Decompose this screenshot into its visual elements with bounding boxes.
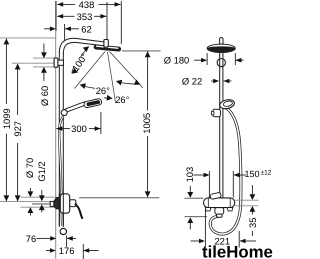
holder right figure <box>213 109 221 116</box>
svg-text:Ø 70: Ø 70 <box>24 158 35 178</box>
extension 176 right <box>82 244 84 259</box>
svg-text:100°: 100° <box>69 51 89 73</box>
svg-text:300: 300 <box>71 123 87 134</box>
union nuts <box>205 208 211 211</box>
hose left figure <box>59 116 63 226</box>
mixer body end lines <box>207 198 209 207</box>
spray line right <box>110 52 144 89</box>
datum line 1005 bottom <box>79 197 159 199</box>
26 deg second arc arrows <box>118 82 139 84</box>
svg-text:353: 353 <box>77 11 93 22</box>
svg-text:62: 62 <box>81 23 91 34</box>
dimension 300 <box>56 128 100 130</box>
top datum line 1099 <box>0 37 56 39</box>
dimension 76 <box>37 237 77 239</box>
pipe right figure <box>220 45 223 199</box>
dia60 extension bottom <box>33 66 54 68</box>
datum line 1005 top <box>122 50 161 52</box>
mixer body side view <box>60 194 69 213</box>
hand shower right figure <box>219 98 235 109</box>
dimension dia22 <box>211 80 232 82</box>
extension right 438 <box>120 1 122 44</box>
dimension G12 <box>41 190 43 213</box>
dimension 927 vertical <box>17 64 19 201</box>
extension 221 left <box>204 209 206 248</box>
dimension dia70 <box>29 188 31 216</box>
spray line center <box>108 52 116 103</box>
head side view black bar <box>93 44 121 51</box>
svg-text:103: 103 <box>184 167 195 183</box>
hand shower left figure handle <box>65 102 86 113</box>
svg-text:150: 150 <box>245 169 260 179</box>
head pivot block <box>104 40 108 48</box>
shower arm bend inner <box>63 42 104 54</box>
extension 300 right <box>100 112 102 134</box>
mixer center datum left <box>0 201 54 203</box>
dimension 1099 vertical <box>5 39 7 201</box>
knob above head <box>220 38 223 45</box>
extension union right <box>232 171 234 198</box>
dimension dia180 <box>194 59 244 61</box>
dimension 1005 <box>147 51 149 197</box>
dia60 extension top <box>33 57 54 59</box>
bracket datum line 927 <box>12 62 54 64</box>
dimension 176 <box>46 250 99 252</box>
top extension left dark (shared 438/353/62) <box>55 1 57 31</box>
wall line left figure <box>55 1 57 259</box>
dimension dia60 <box>43 44 45 82</box>
ball joint ring <box>217 59 225 67</box>
mixer nipple square <box>50 201 54 206</box>
dimension 150 <box>194 174 247 176</box>
svg-text:±12: ±12 <box>261 169 272 176</box>
hose right figure <box>210 108 241 235</box>
head disc front view <box>207 44 235 52</box>
100 deg arc and arrows <box>81 49 88 58</box>
extension pipe axis 62 <box>64 24 66 41</box>
extension disc left <box>206 53 208 65</box>
extension 221 right <box>238 231 240 248</box>
svg-text:927: 927 <box>12 121 23 137</box>
hand shower left figure head <box>84 98 103 108</box>
riser pipe left figure <box>59 52 63 227</box>
svg-text:Ø 180: Ø 180 <box>164 55 190 66</box>
svg-text:26°: 26° <box>115 94 129 105</box>
svg-text:Ø 22: Ø 22 <box>182 76 202 87</box>
hand shower holder circle <box>61 110 67 116</box>
G12 extension bottom dark <box>32 203 51 205</box>
svg-text:438: 438 <box>79 0 95 10</box>
svg-text:G1/2: G1/2 <box>36 161 47 181</box>
dimension 103 <box>189 186 191 230</box>
dia70 extension top <box>21 196 57 198</box>
spray line left <box>75 52 106 89</box>
dimension 62 <box>44 28 79 30</box>
mixer handle stub <box>70 200 76 207</box>
mixer front body <box>204 198 235 208</box>
35 extension lines <box>235 199 259 201</box>
dimension 353 <box>57 15 106 17</box>
svg-text:76: 76 <box>26 233 36 244</box>
dimension 438 <box>57 3 120 5</box>
hose end tip left figure <box>60 228 66 234</box>
mixer side view escutcheon cone <box>54 197 61 209</box>
103 extension top <box>185 197 204 199</box>
wall bracket flange <box>54 58 58 67</box>
pipe through mixer body <box>59 193 63 225</box>
mixer handle front <box>210 192 222 199</box>
26 deg first arc arrows <box>81 85 96 88</box>
dimension 35 <box>251 185 253 236</box>
103 extension bottom <box>185 216 208 218</box>
svg-text:176: 176 <box>59 245 75 256</box>
svg-text:1005: 1005 <box>141 113 152 134</box>
shower arm bend outer <box>59 38 104 53</box>
svg-text:tileHome: tileHome <box>202 243 273 259</box>
svg-text:35: 35 <box>247 218 258 228</box>
hose nut <box>217 214 222 217</box>
svg-text:221: 221 <box>214 235 230 246</box>
svg-text:Ø 60: Ø 60 <box>39 86 50 106</box>
mixer lever black <box>75 204 83 219</box>
extension disc right <box>234 53 236 65</box>
dimension 221 <box>191 240 257 242</box>
extension union left <box>208 171 210 198</box>
extension right 353 <box>106 2 108 41</box>
head disc black face <box>207 46 235 52</box>
extension hose tip <box>66 236 68 248</box>
wall bracket arm <box>58 60 64 65</box>
svg-text:26°: 26° <box>96 85 110 96</box>
dia70 extension bottom <box>21 206 57 208</box>
svg-text:1099: 1099 <box>1 108 12 129</box>
outlet block <box>215 208 224 215</box>
